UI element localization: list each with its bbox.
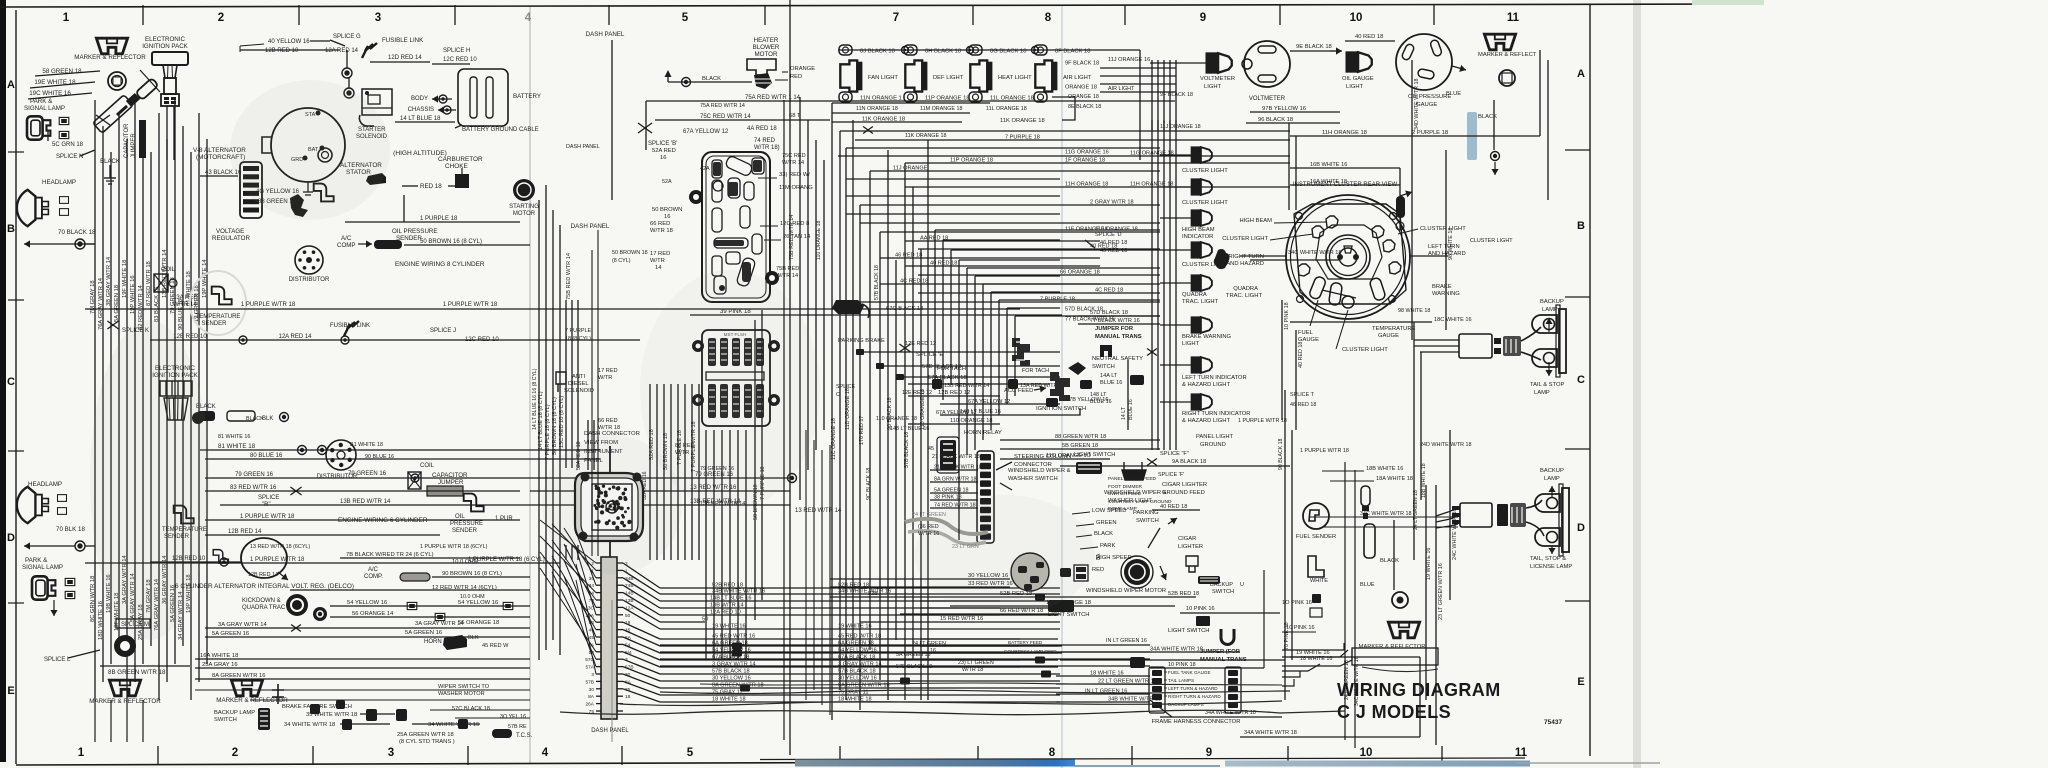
svg-text:ACC FEED: ACC FEED xyxy=(1004,388,1033,394)
svg-text:75 GRAY 11: 75 GRAY 11 xyxy=(712,690,742,696)
svg-text:SWITCH: SWITCH xyxy=(1092,364,1115,370)
svg-text:8A GREEN W/TR 16: 8A GREEN W/TR 16 xyxy=(212,673,265,679)
svg-text:50 BROWN: 50 BROWN xyxy=(652,207,682,213)
fuse panel inner parts xyxy=(712,160,722,178)
svg-text:5B GREEN 18: 5B GREEN 18 xyxy=(1062,443,1098,449)
svg-text:C: C xyxy=(1577,374,1585,386)
heater blower motor xyxy=(747,59,776,75)
svg-text:76A GRAY W/TR 14: 76A GRAY W/TR 14 xyxy=(98,277,104,330)
svg-text:66 RED: 66 RED xyxy=(598,418,618,424)
svg-text:SPLICE J: SPLICE J xyxy=(430,328,456,334)
u shape jumper xyxy=(1221,629,1234,645)
svg-text:3A GRAY W/TR 14: 3A GRAY W/TR 14 xyxy=(415,621,465,627)
steering column connector xyxy=(980,454,991,461)
svg-text:12B RED 14: 12B RED 14 xyxy=(248,572,278,578)
svg-text:11: 11 xyxy=(1507,12,1520,24)
svg-text:80 BLUE 16: 80 BLUE 16 xyxy=(250,453,283,459)
dash connector xyxy=(575,473,643,541)
svg-text:12C RED 10: 12C RED 10 xyxy=(465,337,499,343)
svg-text:18C WHITE 16: 18C WHITE 16 xyxy=(1434,317,1472,323)
svg-text:10: 10 xyxy=(1350,12,1363,24)
svg-text:MARKER & REFLECTOR: MARKER & REFLECTOR xyxy=(89,698,161,705)
small box right of nest xyxy=(1352,648,1438,665)
svg-text:11G ORANGE 16: 11G ORANGE 16 xyxy=(1065,150,1109,156)
svg-text:ENGINE WIRING 8 CYLINDER: ENGINE WIRING 8 CYLINDER xyxy=(395,261,485,268)
svg-text:45 RED W/TR 16: 45 RED W/TR 16 xyxy=(712,634,755,640)
svg-text:COMP.: COMP. xyxy=(364,574,383,580)
svg-text:57B BLACK 18: 57B BLACK 18 xyxy=(838,669,876,675)
svg-text:46 RED 18: 46 RED 18 xyxy=(1100,240,1127,246)
diagonal capacitor xyxy=(135,78,158,100)
relay wires xyxy=(930,469,978,471)
svg-text:SPLICE 'E: SPLICE 'E xyxy=(916,352,943,358)
svg-text:11H ORANGE 18: 11H ORANGE 18 xyxy=(1322,130,1367,136)
bottom artifact line xyxy=(1075,765,1220,767)
wires 88 GREEN xyxy=(1000,439,1160,441)
svg-text:7 PURPLE 18 (8 CYL): 7 PURPLE 18 (8 CYL) xyxy=(545,404,551,460)
svg-text:ELECTRONIC: ELECTRONIC xyxy=(145,36,185,43)
svg-text:MARKER & REFLECTOR: MARKER & REFLECTOR xyxy=(1359,644,1426,650)
wiper switch pins xyxy=(1060,568,1071,577)
svg-text:BLACK: BLACK xyxy=(1094,531,1113,537)
fuse box lower texture xyxy=(708,338,716,366)
svg-text:CIGAR LIGHTER: CIGAR LIGHTER xyxy=(1162,482,1207,488)
windshield wiper motor xyxy=(1124,559,1150,585)
svg-text:5C GRN 18: 5C GRN 18 xyxy=(52,142,84,148)
svg-text:CLUSTER LIGHT: CLUSTER LIGHT xyxy=(1182,200,1228,206)
svg-text:50 BROWN 16 (8 CYL): 50 BROWN 16 (8 CYL) xyxy=(420,239,482,245)
svg-text:4: 4 xyxy=(542,747,549,759)
svg-text:REGULATOR: REGULATOR xyxy=(212,235,250,242)
stepped harness nest above title xyxy=(1282,643,1344,650)
capacitor jumper 2 bar xyxy=(427,486,463,496)
svg-text:BLUE: BLUE xyxy=(1360,582,1375,588)
svg-text:BODY: BODY xyxy=(411,96,428,102)
svg-text:1 PURPLE 18: 1 PURPLE 18 xyxy=(420,216,458,222)
svg-text:KICKDOWN &: KICKDOWN & xyxy=(242,598,281,604)
svg-text:11K ORANGE 18: 11K ORANGE 18 xyxy=(1000,118,1045,124)
svg-text:14 LT BLUE 18: 14 LT BLUE 18 xyxy=(400,116,441,122)
svg-text:23 LT GREEN W/TR 16: 23 LT GREEN W/TR 16 xyxy=(1438,563,1444,620)
svg-text:19F WHITE 18: 19F WHITE 18 xyxy=(122,260,128,298)
svg-text:D: D xyxy=(1577,522,1585,534)
parking brake xyxy=(832,300,864,314)
svg-text:FUEL TANK GAUGE: FUEL TANK GAUGE xyxy=(1168,670,1211,675)
svg-text:7B BLACK W/RED TR 24 (6 CYL): 7B BLACK W/RED TR 24 (6 CYL) xyxy=(346,552,434,558)
svg-text:34D WHITE W/TR 18: 34D WHITE W/TR 18 xyxy=(1414,78,1420,130)
svg-text:TRAC. LIGHT: TRAC. LIGHT xyxy=(1226,293,1263,299)
svg-text:170 RED 17: 170 RED 17 xyxy=(859,416,865,445)
svg-text:INDICATOR: INDICATOR xyxy=(1182,234,1213,240)
second long vertical x784 xyxy=(783,100,785,740)
svg-text:75B RED W/TR 14: 75B RED W/TR 14 xyxy=(789,215,795,260)
svg-text:C: C xyxy=(7,376,15,388)
svg-text:57D BLACK 18: 57D BLACK 18 xyxy=(1090,310,1128,316)
tail assembly D wires xyxy=(1436,508,1458,516)
fuse box lower xyxy=(702,330,770,426)
svg-text:WASHER SWITCH: WASHER SWITCH xyxy=(1008,476,1058,482)
svg-text:CHASSIS: CHASSIS xyxy=(408,107,434,113)
svg-text:DASH PANEL: DASH PANEL xyxy=(586,31,625,38)
svg-text:FUSIBLE LINK: FUSIBLE LINK xyxy=(330,323,370,329)
wire 34C WHITE WTR 18 lower xyxy=(1324,526,1458,528)
svg-text:CIGAR: CIGAR xyxy=(1178,536,1196,542)
svg-text:SPLICE: SPLICE xyxy=(258,495,279,501)
svg-text:14: 14 xyxy=(655,265,662,271)
svg-text:9: 9 xyxy=(1206,747,1212,759)
svg-text:DASH PANEL: DASH PANEL xyxy=(571,223,610,230)
long verticals right of cluster xyxy=(1284,390,1286,700)
svg-text:TRAC. LIGHT: TRAC. LIGHT xyxy=(1182,299,1219,305)
svg-text:8C GRN W/TR 18: 8C GRN W/TR 18 xyxy=(90,576,96,622)
svg-text:5A GREEN 18: 5A GREEN 18 xyxy=(896,652,930,658)
svg-text:BLUE 16: BLUE 16 xyxy=(1090,399,1112,405)
wire 11C ORANGE low xyxy=(950,605,1175,607)
svg-text:LEFT TURN INDICATOR: LEFT TURN INDICATOR xyxy=(1182,375,1247,381)
svg-text:1 PURPLE W/TR 18: 1 PURPLE W/TR 18 xyxy=(241,302,296,308)
svg-text:8A: 8A xyxy=(1096,553,1102,560)
svg-text:FUEL SENDER: FUEL SENDER xyxy=(1296,534,1336,540)
svg-text:1 PURPLE W/TR 18: 1 PURPLE W/TR 18 xyxy=(240,514,295,520)
svg-text:1 PURPLE W/TR 18: 1 PURPLE W/TR 18 xyxy=(1300,448,1349,454)
svg-text:3B GRAY W/TR 14: 3B GRAY W/TR 14 xyxy=(106,256,112,306)
right row ticks xyxy=(1565,149,1590,151)
svg-text:COIL: COIL xyxy=(420,463,435,469)
svg-text:W/TR 18: W/TR 18 xyxy=(962,667,983,673)
svg-text:BACKUP LAMP: BACKUP LAMP xyxy=(214,710,255,716)
svg-text:96 BLACK 18: 96 BLACK 18 xyxy=(1258,117,1293,123)
right bundle extension up xyxy=(1151,60,1153,130)
svg-text:BRAKE WARNING: BRAKE WARNING xyxy=(1182,334,1232,340)
svg-text:BLACK: BLACK xyxy=(1380,558,1399,564)
svg-text:1 PUR: 1 PUR xyxy=(495,516,513,522)
svg-text:VOLTMETER: VOLTMETER xyxy=(1200,76,1235,82)
wire 54 YELLOW 16 row xyxy=(330,605,530,607)
svg-text:VOLTAGE: VOLTAGE xyxy=(216,228,244,235)
svg-text:QUADRA TRAC: QUADRA TRAC xyxy=(242,605,286,611)
svg-text:SPLICE N: SPLICE N xyxy=(56,154,83,160)
svg-text:11P ORANGE 18: 11P ORANGE 18 xyxy=(950,158,993,164)
wires bottom right rows xyxy=(1060,651,1240,653)
svg-text:97B YELLOW 16: 97B YELLOW 16 xyxy=(1262,106,1306,112)
splice blob donut xyxy=(114,635,136,657)
svg-text:TAIL LAMPS: TAIL LAMPS xyxy=(1168,678,1194,683)
svg-text:QUADRA: QUADRA xyxy=(1182,292,1207,298)
svg-text:19 WHITE 16: 19 WHITE 16 xyxy=(712,624,746,630)
wire 1 PURPLE 18 xyxy=(345,221,520,223)
svg-text:42A: 42A xyxy=(700,166,710,172)
svg-text:E: E xyxy=(7,685,14,697)
svg-text:SPLICE "F": SPLICE "F" xyxy=(1160,451,1189,457)
svg-text:W/TR 14: W/TR 14 xyxy=(173,302,197,308)
svg-text:75A RED W/TR 1 14: 75A RED W/TR 1 14 xyxy=(745,95,801,101)
svg-text:1 PURPLE W/TR 18: 1 PURPLE W/TR 18 xyxy=(250,557,305,563)
cluster bottom sockets xyxy=(1308,276,1326,301)
svg-text:16A WHITE 18: 16A WHITE 18 xyxy=(200,653,238,659)
left harness vertical bundle xyxy=(94,100,96,700)
svg-text:67C B ACK 18: 67C B ACK 18 xyxy=(886,306,923,312)
svg-text:SPLICE T: SPLICE T xyxy=(1290,392,1315,398)
wire 67A YELLOW 12 xyxy=(940,403,1060,405)
svg-text:CLUSTER LIGHT: CLUSTER LIGHT xyxy=(1222,236,1268,242)
fuel sender xyxy=(1303,503,1329,529)
svg-text:MARKER & REFLECT: MARKER & REFLECT xyxy=(1478,52,1537,58)
svg-text:18 WHITE 16: 18 WHITE 16 xyxy=(1090,671,1124,677)
left scan black strip xyxy=(0,0,6,762)
svg-text:ORANGE: ORANGE xyxy=(790,66,815,72)
svg-text:D: D xyxy=(7,532,15,544)
oil pressure sender xyxy=(314,184,334,202)
svg-text:8A GREEN W/TR 18: 8A GREEN W/TR 18 xyxy=(712,683,764,689)
svg-text:LAMP: LAMP xyxy=(1544,476,1560,482)
svg-text:52B: 52B xyxy=(868,591,878,597)
svg-text:10: 10 xyxy=(1360,747,1373,759)
svg-text:IN LT GREEN 16: IN LT GREEN 16 xyxy=(1106,638,1147,644)
svg-text:A/C: A/C xyxy=(341,235,352,242)
wire 128 RED 10 row xyxy=(150,339,640,341)
svg-text:30 YELLOW 16: 30 YELLOW 16 xyxy=(838,676,877,682)
vert lines right top xyxy=(1539,50,1541,136)
svg-text:56 ORANGE 18: 56 ORANGE 18 xyxy=(458,620,499,626)
svg-text:U: U xyxy=(1240,582,1244,588)
svg-text:PARKING: PARKING xyxy=(1133,510,1159,516)
svg-text:12A RED 14: 12A RED 14 xyxy=(325,48,359,54)
svg-text:MANUAL TRANS: MANUAL TRANS xyxy=(1095,334,1142,340)
svg-text:C: C xyxy=(836,392,840,398)
svg-text:COMP: COMP xyxy=(337,242,356,249)
svg-text:45 RED W: 45 RED W xyxy=(482,643,509,649)
svg-text:16: 16 xyxy=(660,155,666,161)
vert drop from row1 xyxy=(1139,50,1141,160)
svg-text:81 WHITE 16: 81 WHITE 16 xyxy=(218,434,250,440)
svg-text:57B: 57B xyxy=(585,679,594,685)
starting motor xyxy=(513,179,535,201)
svg-text:3O YEL 16: 3O YEL 16 xyxy=(500,714,526,720)
svg-text:14A LT: 14A LT xyxy=(1100,373,1118,379)
marker reflector top right xyxy=(1484,34,1515,50)
svg-text:75B RED: 75B RED xyxy=(776,266,799,272)
wire 7B BLACK WRED TR xyxy=(340,557,520,559)
svg-text:56 ORANGE 14: 56 ORANGE 14 xyxy=(352,611,394,617)
svg-text:34 WHITE W/TR 18: 34 WHITE W/TR 18 xyxy=(284,722,335,728)
wire 14 LT BLUE vertical xyxy=(1127,360,1129,430)
svg-text:7 PURPLE: 7 PURPLE xyxy=(565,328,591,334)
svg-text:PANEL LIGHTS FEED: PANEL LIGHTS FEED xyxy=(1108,476,1157,482)
svg-text:11N ORANGE 1: 11N ORANGE 1 xyxy=(860,96,902,102)
temperature sender xyxy=(212,287,232,305)
svg-text:14 LT: 14 LT xyxy=(1121,406,1127,420)
wire 25A GRAY row xyxy=(195,667,530,669)
1 PURPLE WTR 18 long bottom xyxy=(85,562,560,564)
svg-text:WINDSHIELD WIPER &: WINDSHIELD WIPER & xyxy=(1008,468,1071,474)
svg-text:10 PINK 18: 10 PINK 18 xyxy=(1284,302,1290,330)
svg-text:4C RED 18: 4C RED 18 xyxy=(1095,288,1123,294)
svg-text:24 LT GREEN: 24 LT GREEN xyxy=(912,641,946,647)
right-center vertical bundle xyxy=(831,103,833,720)
svg-text:LAMP: LAMP xyxy=(1534,390,1550,396)
svg-text:WARNING: WARNING xyxy=(1432,291,1460,297)
svg-text:34C WHITE W/TR 18: 34C WHITE W/TR 18 xyxy=(1288,250,1341,256)
upper-right horizontals into bundle xyxy=(1100,67,1176,69)
wire 110 ORANGE 10 row xyxy=(1000,458,1110,460)
svg-text:30 YELLOW 16: 30 YELLOW 16 xyxy=(712,676,751,682)
svg-text:LICENSE LAMP: LICENSE LAMP xyxy=(1530,564,1572,570)
svg-text:75C RED: 75C RED xyxy=(782,153,806,159)
svg-text:79 GREEN 16: 79 GREEN 16 xyxy=(700,466,734,472)
svg-text:75B RED W/TR 14: 75B RED W/TR 14 xyxy=(566,253,572,300)
svg-text:98 WHITE 18: 98 WHITE 18 xyxy=(1398,308,1430,314)
svg-text:5A GREEN 18: 5A GREEN 18 xyxy=(934,488,968,494)
svg-text:10 PINK 18: 10 PINK 18 xyxy=(1168,662,1196,668)
svg-text:90 BROWN 16 (8 CYL): 90 BROWN 16 (8 CYL) xyxy=(442,571,502,577)
svg-text:T.C.S.: T.C.S. xyxy=(516,733,533,739)
svg-text:46 RED 18: 46 RED 18 xyxy=(1290,402,1316,408)
svg-text:LIGHT: LIGHT xyxy=(1182,341,1200,347)
svg-text:SPLICE L: SPLICE L xyxy=(44,657,71,663)
ink blob xyxy=(290,194,308,217)
svg-text:13B RED W/TR 14: 13B RED W/TR 14 xyxy=(700,501,745,507)
diagonal capsule xyxy=(93,95,134,134)
svg-text:11L ORANGE 18: 11L ORANGE 18 xyxy=(990,96,1034,102)
svg-text:JUMPER FOR: JUMPER FOR xyxy=(1095,326,1134,332)
circle conn lower xyxy=(1392,592,1408,608)
svg-text:3A GRAY W/TR 14: 3A GRAY W/TR 14 xyxy=(218,622,268,628)
svg-text:PARK &: PARK & xyxy=(25,557,48,564)
svg-text:54 YELLOW 16: 54 YELLOW 16 xyxy=(458,600,498,606)
svg-text:17 RED: 17 RED xyxy=(598,368,618,374)
instrument cluster outer circles xyxy=(1286,195,1410,319)
svg-text:MANUAL TRANS: MANUAL TRANS xyxy=(1200,657,1247,663)
svg-text:DOME LAMP: DOME LAMP xyxy=(1108,506,1137,512)
svg-text:VOLTMETER: VOLTMETER xyxy=(1249,96,1286,102)
bus corner verticals mid xyxy=(934,230,936,390)
fold line col4 xyxy=(529,6,531,764)
svg-text:88 GREEN W/TR 18: 88 GREEN W/TR 18 xyxy=(1055,434,1106,440)
svg-text:70 BLACK 18: 70 BLACK 18 xyxy=(58,229,96,236)
svg-text:12E RED 12: 12E RED 12 xyxy=(902,390,932,396)
svg-text:HIGH BEAM: HIGH BEAM xyxy=(1182,227,1215,233)
svg-text:4A RED 18: 4A RED 18 xyxy=(747,126,777,132)
svg-text:HEAT LIGHT: HEAT LIGHT xyxy=(998,75,1032,81)
svg-text:BLK: BLK xyxy=(262,416,273,422)
svg-text:GROUND FEED: GROUND FEED xyxy=(1162,490,1205,496)
svg-text:17 RED: 17 RED xyxy=(650,251,670,257)
svg-text:CLUSTER LIGHT: CLUSTER LIGHT xyxy=(1182,168,1228,174)
svg-text:12B RED 10: 12B RED 10 xyxy=(265,48,299,54)
svg-text:9C BLACK 18: 9C BLACK 18 xyxy=(866,468,872,500)
svg-text:75437: 75437 xyxy=(1544,719,1562,726)
svg-text:DASH PANEL: DASH PANEL xyxy=(566,144,600,150)
svg-text:57B BLACK 18: 57B BLACK 18 xyxy=(874,265,880,300)
svg-text:JUMPER: JUMPER xyxy=(438,479,464,486)
top ticks xyxy=(142,5,144,25)
fold line col7 blue xyxy=(1061,6,1063,768)
splice junction xyxy=(96,115,110,125)
white pill right-lower xyxy=(1364,524,1375,558)
svg-text:16: 16 xyxy=(664,214,670,220)
tail harness connector C xyxy=(1459,334,1492,358)
svg-text:40 RED 18: 40 RED 18 xyxy=(1298,342,1304,368)
svg-text:34 WHITE W/TR 16: 34 WHITE W/TR 16 xyxy=(428,722,479,728)
svg-text:GREEN: GREEN xyxy=(1096,520,1117,526)
alternator stator xyxy=(366,173,386,185)
svg-text:SPLICE 'D: SPLICE 'D xyxy=(1095,232,1122,238)
more blobs upper xyxy=(856,349,864,355)
svg-text:90 BLUE 16: 90 BLUE 16 xyxy=(365,454,394,460)
svg-text:PARK &: PARK & xyxy=(30,98,53,105)
svg-text:3: 3 xyxy=(591,672,594,678)
temperature sender 2 xyxy=(174,506,194,524)
svg-text:24D WHITE W/TR 18: 24D WHITE W/TR 18 xyxy=(1420,442,1472,448)
svg-text:9: 9 xyxy=(1200,12,1206,24)
svg-text:3: 3 xyxy=(388,747,394,759)
svg-text:BLACK: BLACK xyxy=(702,76,721,82)
svg-text:RED: RED xyxy=(1092,567,1104,573)
wiper washer switch blob xyxy=(1011,553,1049,591)
svg-text:DASH PANEL: DASH PANEL xyxy=(591,728,629,734)
svg-text:90 BLACK 18: 90 BLACK 18 xyxy=(1278,438,1284,470)
svg-text:21 BLACK W/TR 18: 21 BLACK W/TR 18 xyxy=(932,454,980,460)
6cyl alternator xyxy=(241,538,287,578)
svg-text:19P WHITE 16: 19P WHITE 16 xyxy=(130,275,136,314)
wire 1 PURPLE WTR 18 long row xyxy=(85,308,530,310)
svg-text:19 WHITE 16: 19 WHITE 16 xyxy=(1426,548,1432,580)
svg-text:FOOT DIMMER: FOOT DIMMER xyxy=(1108,484,1143,490)
bottom-left extra rows xyxy=(195,689,530,691)
temperature sender ellipse watermark xyxy=(190,271,246,335)
wire 52B RED 18 low xyxy=(830,596,1160,598)
svg-text:18A WHITE 18: 18A WHITE 18 xyxy=(1376,476,1413,482)
wire 8A GREEN row xyxy=(195,678,530,680)
wire 75C RED WTR 14 xyxy=(655,119,830,121)
svg-text:WASHER MOTOR: WASHER MOTOR xyxy=(438,691,485,697)
svg-text:66 ORANGE 18: 66 ORANGE 18 xyxy=(1060,270,1100,276)
marker reflector bottom mid xyxy=(231,680,262,696)
svg-text:8H BLACK 18: 8H BLACK 18 xyxy=(925,49,961,55)
oil gauge light bullet xyxy=(1346,52,1371,72)
svg-text:PRESSURE: PRESSURE xyxy=(450,521,483,527)
svg-text:12B RED 14: 12B RED 14 xyxy=(228,529,262,535)
border left xyxy=(15,10,17,764)
svg-text:BACKUP: BACKUP xyxy=(1540,299,1564,305)
svg-text:79 GREEN 16: 79 GREEN 16 xyxy=(348,471,387,477)
svg-text:9F BLACK 18: 9F BLACK 18 xyxy=(1065,61,1099,67)
svg-text:COURTESY LAMP FEED: COURTESY LAMP FEED xyxy=(1004,649,1057,654)
svg-text:45: 45 xyxy=(928,446,934,452)
svg-text:RIGHT TURN: RIGHT TURN xyxy=(1228,254,1264,260)
extra splice marks xyxy=(863,127,873,134)
svg-text:25A GREEN W/TR 18: 25A GREEN W/TR 18 xyxy=(397,732,454,738)
wire 90 BROWN xyxy=(432,576,530,578)
wire 16A WHITE 18 xyxy=(1290,184,1400,186)
fuel sender 2 elbow xyxy=(1308,556,1324,577)
svg-text:BATTERY: BATTERY xyxy=(513,93,541,100)
svg-text:3: 3 xyxy=(375,12,381,24)
black cylinder connector xyxy=(197,411,215,421)
wire 79 GREEN 16 row xyxy=(205,477,790,479)
svg-text:CHOKE: CHOKE xyxy=(445,163,468,170)
fuse panel stud right xyxy=(765,271,779,285)
svg-text:12D RED 14: 12D RED 14 xyxy=(388,55,422,61)
svg-text:57A: 57A xyxy=(585,665,594,671)
fuse panel stud left xyxy=(689,190,703,204)
svg-text:23) LT GREEN: 23) LT GREEN xyxy=(958,660,994,666)
wire 56 ORANGE 14 row xyxy=(330,616,530,618)
svg-text:RIGHT TURN INDICATOR: RIGHT TURN INDICATOR xyxy=(1182,411,1251,417)
dash panel connector strip xyxy=(601,557,617,719)
svg-text:CLUSTER LIGHT: CLUSTER LIGHT xyxy=(1420,226,1466,232)
svg-text:50 BROWN 18: 50 BROWN 18 xyxy=(612,250,648,256)
